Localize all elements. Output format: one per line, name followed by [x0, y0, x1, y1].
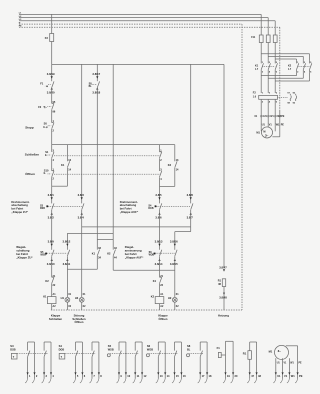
wire heizung drop from rail: [223, 64, 225, 267]
wire N drop: [241, 24, 243, 310]
svg-text:17: 17: [202, 374, 205, 378]
svg-text:5: 5: [276, 93, 278, 95]
svg-text:18: 18: [209, 374, 212, 378]
svg-text:3.8/6: 3.8/6: [155, 216, 162, 220]
svg-text:3.8/48: 3.8/48: [219, 295, 227, 299]
wire lamp H1 to N rail: [67, 302, 71, 310]
svg-text:3: 3: [269, 93, 271, 95]
svg-text:34: 34: [98, 257, 101, 260]
wire L1 to F11: [260, 14, 262, 35]
svg-text:S3: S3: [10, 344, 14, 348]
svg-text:K1: K1: [92, 252, 96, 256]
svg-text:4: 4: [53, 159, 55, 162]
svg-text:13: 13: [68, 159, 71, 162]
wire box bottom edge left: [52, 185, 68, 187]
wire lamp H2 to N rail: [175, 302, 179, 310]
svg-text:3~: 3~: [278, 349, 282, 353]
svg-text:16: 16: [183, 374, 186, 378]
svg-text:DSB: DSB: [40, 208, 45, 210]
wire lamp H3 to N rail: [82, 302, 86, 310]
wire K1 33 out to lamp H1 branch: [67, 256, 97, 269]
svg-text:3.8/3: 3.8/3: [78, 193, 85, 197]
svg-text:3.8/17: 3.8/17: [92, 72, 100, 76]
wire rail drop column to S3 second contact: [81, 64, 83, 203]
wire branch to K2 phase L3: [275, 59, 296, 60]
svg-text:S6: S6: [149, 251, 153, 254]
svg-text:PE: PE: [281, 124, 285, 127]
wire R1 to N rail: [223, 287, 225, 311]
svg-text:6: 6: [310, 71, 312, 73]
svg-text:96: 96: [53, 110, 56, 113]
svg-text:1.7: 1.7: [255, 69, 259, 71]
wire S6 to K1 interlock: [159, 256, 161, 277]
svg-text:DOB: DOB: [148, 208, 153, 210]
connector refs 3.8/8 3.8/7: [187, 193, 194, 220]
svg-text:Stopp: Stopp: [25, 126, 34, 130]
svg-text:X1: X1: [68, 293, 72, 296]
wire F1 to F2 contact: [51, 88, 53, 104]
latch box top edge: [97, 239, 113, 241]
svg-text:U1: U1: [277, 374, 281, 378]
overload relay F2: [253, 91, 278, 103]
svg-text:3.8/18: 3.8/18: [92, 90, 100, 94]
svg-text:S5: S5: [40, 251, 44, 254]
wire K1 NC to coil K2: [160, 284, 165, 297]
svg-text:48: 48: [258, 374, 261, 378]
svg-text:4: 4: [269, 70, 271, 73]
svg-text:3.8/47: 3.8/47: [219, 265, 227, 269]
svg-text:E-⊙: E-⊙: [43, 126, 47, 129]
text Drehmoment ZU: [11, 200, 29, 214]
svg-text:3.8/9: 3.8/9: [48, 239, 55, 243]
text Drehmoment AUF: [120, 200, 139, 214]
svg-text:3.8/15: 3.8/15: [170, 262, 178, 266]
svg-text:33: 33: [98, 247, 101, 250]
svg-text:21: 21: [53, 275, 56, 278]
svg-text:PE: PE: [299, 374, 303, 378]
svg-text:A1: A1: [53, 293, 57, 296]
svg-text:K2: K2: [288, 65, 292, 68]
mech link S10 to S2 contact: [54, 173, 160, 175]
svg-text:PE: PE: [281, 115, 285, 118]
svg-text:F2: F2: [253, 91, 257, 94]
wire K2 output return phase b: [268, 73, 303, 79]
svg-text:S3: S3: [40, 204, 44, 207]
svg-text:4: 4: [269, 101, 271, 104]
wire node line to S2 contacts: [159, 145, 161, 152]
svg-text:K1: K1: [153, 279, 157, 283]
svg-text:20: 20: [235, 374, 238, 378]
limit switch S5 Weg ZU: [40, 250, 54, 257]
connector refs 3.8/3 3.8/4: [78, 193, 85, 220]
wire branch to K2 phase L2: [268, 56, 303, 60]
svg-text:„Klappe AUF“: „Klappe AUF“: [120, 210, 139, 214]
torque switch S4 Klappe AUF: [148, 203, 161, 210]
svg-text:E-: E-: [44, 173, 47, 175]
svg-text:3.8/7: 3.8/7: [187, 216, 194, 220]
svg-text:4: 4: [52, 374, 54, 378]
wire coil K2 to N rail: [160, 304, 165, 310]
contactor K1 main contacts: [255, 60, 278, 73]
svg-text:22: 22: [160, 284, 163, 287]
wire rail drop to S4 second contact: [190, 64, 192, 203]
svg-text:X1: X1: [254, 116, 258, 118]
svg-text:3.8/10: 3.8/10: [47, 262, 55, 266]
wire L2 to F11: [267, 18, 269, 35]
torque switch S4 second contact: [191, 203, 193, 209]
svg-text:BL: BL: [89, 86, 93, 88]
wire K2 output return phase c: [275, 73, 309, 81]
heater device R1: [243, 342, 262, 383]
wire from link line to S5 lamp branch: [66, 233, 68, 249]
svg-text:F1: F1: [217, 346, 221, 350]
svg-text:A1: A1: [160, 293, 164, 296]
svg-text:W1: W1: [291, 374, 295, 378]
wire coil K1 to N rail: [52, 304, 57, 310]
svg-text:6: 6: [276, 102, 278, 104]
aux contact F2 95-96: [293, 92, 297, 104]
wire K1 outputs to F2: [261, 73, 275, 93]
limit switch device S3: [10, 342, 54, 383]
svg-text:R1: R1: [243, 352, 247, 356]
connector refs 3.8/9 3.8/10: [47, 239, 55, 265]
heater resistor R1: [218, 279, 226, 287]
link line to lamp branch left: [67, 232, 113, 234]
svg-text:BL: BL: [187, 349, 191, 352]
label Stopp: [25, 126, 34, 130]
svg-text:43: 43: [114, 247, 117, 250]
svg-text:E-: E-: [45, 155, 48, 157]
svg-text:K2: K2: [107, 252, 111, 256]
terminal strip X1: [254, 115, 284, 118]
svg-text:X1: X1: [176, 293, 180, 296]
self-hold branch K2 13-14: [168, 145, 179, 187]
text Riegelansteuerung AUF: [125, 245, 144, 259]
wire rail to F1 contact: [51, 64, 53, 81]
svg-text:K2: K2: [151, 295, 155, 299]
lamp H2: [168, 296, 177, 302]
svg-text:S0: S0: [44, 122, 48, 126]
text Heizung: [218, 314, 229, 318]
svg-text:A2: A2: [160, 305, 164, 308]
connector refs 3.8/17 3.8/18: [92, 72, 100, 94]
svg-text:F1: F1: [40, 81, 44, 85]
svg-text:X2: X2: [83, 305, 87, 308]
svg-text:3.8/11: 3.8/11: [63, 262, 71, 266]
connector refs 3.8/12 3.8/11: [63, 239, 71, 265]
release switch S8 BL: [89, 81, 100, 88]
svg-text:2: 2: [297, 71, 299, 73]
svg-text:9: 9: [120, 374, 122, 378]
svg-text:R1: R1: [218, 279, 222, 282]
svg-text:W1: W1: [290, 362, 294, 364]
fuse F3: [45, 34, 54, 42]
text Wegabschaltung ZU: [16, 245, 33, 259]
svg-text:V1: V1: [284, 362, 288, 364]
limit switch S6 second contact: [175, 250, 177, 256]
svg-text:◌⊖: ◌⊖: [45, 85, 48, 88]
svg-text:U1: U1: [277, 362, 281, 364]
svg-text:12: 12: [144, 374, 147, 378]
wire between S2 contacts: [159, 158, 161, 171]
connector refs 3.8/19 3.8/20: [47, 72, 55, 94]
svg-text:3: 3: [46, 374, 48, 378]
net L3 bus: [19, 19, 275, 21]
latch contact K2 43-44: [107, 247, 117, 259]
svg-text:Öffnen: Öffnen: [74, 319, 83, 324]
svg-text:98: 98: [287, 102, 290, 104]
svg-text:H3: H3: [75, 296, 79, 300]
svg-text:K1: K1: [43, 295, 47, 299]
wire K2 43 out to Oeffnen branch: [113, 256, 175, 270]
svg-text:2: 2: [36, 374, 38, 378]
limit switch S5 second contact: [67, 250, 69, 256]
mech link S1 to S2 contact: [54, 155, 160, 157]
svg-text:6: 6: [84, 374, 86, 378]
svg-text:5: 5: [77, 374, 79, 378]
svg-text:S8: S8: [187, 344, 191, 348]
wire S4 to S6: [159, 210, 161, 250]
svg-text:PE: PE: [299, 362, 303, 364]
svg-text:DSB: DSB: [10, 349, 15, 352]
net N bus: [19, 22, 242, 24]
svg-text:19: 19: [227, 374, 230, 378]
svg-text:1.7: 1.7: [288, 69, 292, 71]
svg-text:S4: S4: [148, 204, 152, 207]
interlock contact K1 21-22 NC: [153, 275, 164, 287]
svg-text:H2: H2: [168, 296, 172, 300]
label Schliessen: [25, 152, 39, 156]
svg-text:V1: V1: [269, 124, 273, 127]
svg-text:1.6: 1.6: [253, 97, 257, 99]
button contact S2 NO 3-4: [160, 168, 163, 180]
wire PE drop to motor: [272, 27, 279, 137]
svg-text:„Klappe ZU“: „Klappe ZU“: [11, 210, 28, 214]
svg-text:WSB: WSB: [40, 254, 46, 256]
wire branch to K2 phase L1: [261, 54, 309, 60]
svg-text:F3: F3: [45, 36, 49, 40]
svg-text:F2: F2: [38, 105, 42, 109]
node line after S0: [52, 144, 175, 146]
svg-text:H1: H1: [61, 296, 65, 300]
contact F2 overload NC 95-96: [38, 101, 56, 113]
wire S10 to box bottom: [51, 177, 53, 186]
svg-text:95: 95: [53, 101, 56, 104]
limit switch device S5: [107, 342, 147, 383]
svg-text:15: 15: [176, 374, 179, 378]
push button S10 Oeffnen NC 1-2: [44, 168, 55, 180]
svg-text:3.8/12: 3.8/12: [63, 239, 71, 243]
svg-text:X2: X2: [176, 305, 180, 308]
svg-text:S10: S10: [44, 168, 49, 172]
limit switch device S6: [146, 342, 186, 383]
svg-text:WOB: WOB: [147, 349, 153, 352]
mech link F2 to aux contacts: [278, 96, 289, 98]
connector refs 3.8/16 3.8/15: [170, 239, 178, 265]
svg-text:1V1: 1V1: [269, 115, 274, 118]
svg-text:N: N: [19, 22, 21, 24]
limit switch device S4: [59, 342, 103, 383]
svg-text:3.8/16: 3.8/16: [170, 239, 178, 243]
mech link S5 pair: [47, 252, 67, 254]
wire L1 tap to F3: [51, 14, 53, 33]
svg-text:2: 2: [53, 178, 55, 181]
svg-text:6: 6: [276, 71, 278, 73]
svg-text:4: 4: [304, 70, 306, 73]
limit switch S6 Weg AUF: [149, 250, 162, 257]
svg-text:14: 14: [68, 168, 71, 171]
svg-text:3.8/19: 3.8/19: [47, 72, 55, 76]
wire F2 to terminals X1: [261, 99, 275, 131]
svg-text:47: 47: [251, 374, 254, 378]
svg-text:S4: S4: [59, 344, 63, 348]
svg-text:2: 2: [262, 71, 264, 73]
lamp H3 Stoerung: [75, 296, 84, 302]
svg-text:X1: X1: [83, 293, 87, 296]
node control rail: [52, 63, 224, 65]
contactor K2 main contacts: [288, 60, 312, 73]
release switch device S8: [187, 342, 212, 383]
svg-text:A2: A2: [53, 305, 57, 308]
svg-text:21: 21: [160, 275, 163, 278]
text Klappe Schliessen: [49, 314, 63, 321]
connector refs 3.8/5 3.8/6: [155, 193, 162, 220]
wire S5 to K2 interlock: [51, 256, 53, 277]
wire F3 to control rail: [51, 42, 53, 65]
svg-text:3.8/1: 3.8/1: [48, 193, 55, 197]
torque switch S3 second contact: [82, 203, 84, 209]
motor M1: [256, 127, 272, 138]
mech link S6 pair: [156, 252, 175, 254]
label Oeffnen: [25, 171, 35, 176]
svg-text:1: 1: [29, 374, 31, 378]
svg-text:8: 8: [100, 374, 102, 378]
svg-text:Schließen: Schließen: [49, 317, 63, 321]
net L2 bus: [19, 16, 268, 18]
svg-text:14: 14: [167, 374, 170, 378]
svg-text:K1: K1: [61, 163, 65, 167]
svg-text:W1: W1: [276, 124, 280, 127]
contact F1 thermistor: [40, 81, 54, 88]
wire K2 NC to coil K1: [52, 284, 57, 297]
aux contact F2 97-98: [287, 92, 291, 104]
svg-text:Öffnen: Öffnen: [25, 171, 35, 176]
text Klappe Oeffnen: [158, 314, 168, 321]
svg-text:3.8/14: 3.8/14: [155, 262, 163, 266]
wire box bottom edge right: [160, 185, 175, 187]
svg-text:„Klappe AUF“: „Klappe AUF“: [125, 255, 144, 259]
svg-text:F11: F11: [251, 36, 256, 39]
fuse F11 three pole: [251, 35, 277, 43]
interlock contact K2 21-22 NC: [45, 275, 55, 287]
svg-text:44: 44: [114, 257, 117, 260]
wire F11 to K1 contacts: [261, 43, 275, 61]
svg-text:K2: K2: [168, 163, 172, 167]
thermistor device F1: [217, 341, 238, 383]
svg-text:2: 2: [53, 130, 55, 133]
mech link S4 pair: [157, 206, 191, 208]
svg-text:U1: U1: [262, 124, 266, 127]
push button S1 Schliessen NO 3-4: [45, 145, 55, 162]
svg-text:K1: K1: [255, 65, 259, 68]
svg-text:T▷: T▷: [43, 106, 46, 109]
svg-text:1: 1: [262, 93, 264, 95]
wire S2 to torque switch S4: [159, 186, 161, 203]
net N bottom rail: [51, 309, 242, 311]
svg-text:4: 4: [160, 178, 162, 181]
svg-text:Schließen: Schließen: [25, 152, 39, 156]
svg-text:DOB: DOB: [59, 349, 65, 352]
svg-text:3.8/8: 3.8/8: [187, 193, 194, 197]
wire S3 to S5: [51, 210, 53, 250]
wire rail drop to latch contact K2: [112, 64, 114, 249]
wire S2 to box bottom right: [159, 177, 161, 186]
connector refs 3.8/47 3.8/48: [219, 265, 227, 299]
net L1 bus: [19, 13, 261, 15]
svg-text:S5: S5: [108, 344, 112, 348]
svg-text:1U1: 1U1: [262, 115, 267, 118]
wire S0 to node line: [51, 129, 53, 145]
svg-text:2: 2: [262, 102, 264, 104]
svg-text:V1: V1: [284, 374, 288, 378]
wire S3 second to junction: [82, 210, 86, 298]
wire L3 to F11: [274, 21, 276, 35]
mech link S3 pair: [48, 206, 81, 208]
coil K1: [43, 295, 56, 304]
wire S10 to torque switch S3: [51, 186, 53, 203]
net PE bus: [19, 26, 280, 28]
wire S8 to latch contact K1 33-34: [96, 88, 98, 250]
text Stoerung: [72, 314, 86, 325]
svg-text:14: 14: [176, 168, 179, 171]
svg-text:11: 11: [137, 374, 140, 378]
svg-text:4R: 4R: [218, 283, 221, 286]
svg-text:3.8/20: 3.8/20: [47, 90, 55, 94]
svg-text:WOB: WOB: [149, 254, 155, 256]
svg-text:2: 2: [160, 159, 162, 162]
torque switch S3 Klappe ZU: [40, 203, 54, 210]
svg-text:3.8/5: 3.8/5: [155, 193, 162, 197]
svg-text:S6: S6: [147, 344, 151, 348]
wire F2 to S0: [51, 110, 53, 123]
svg-text:3~: 3~: [265, 133, 269, 137]
svg-text:X2: X2: [68, 305, 72, 308]
svg-text:„Klappe ZU“: „Klappe ZU“: [16, 255, 33, 259]
svg-text:3.8/2: 3.8/2: [48, 216, 55, 220]
wire S4 second to cross junction: [190, 210, 192, 227]
svg-text:S1: S1: [45, 150, 49, 154]
connector refs 3.8/1 3.8/2: [48, 193, 55, 220]
svg-text:13: 13: [176, 159, 179, 162]
wire cross jog to lamp H2 branch: [175, 227, 191, 250]
wire rail drop to S8 contact: [96, 64, 98, 81]
motor device M1: [269, 345, 303, 383]
wire K2 output return phase a: [261, 73, 296, 76]
svg-text:Öffnen: Öffnen: [158, 316, 167, 321]
svg-text:96: 96: [293, 102, 296, 104]
wire S6 second to lamp H2: [175, 256, 179, 297]
coil K2: [151, 295, 164, 304]
connector refs 3.8/13 3.8/14: [155, 239, 163, 265]
button contact S2 NC 1-2: [160, 149, 163, 161]
latch contact K1 33-34: [92, 247, 102, 259]
svg-text:10: 10: [127, 374, 130, 378]
svg-text:3.8/4: 3.8/4: [78, 216, 85, 220]
wire S5 second to lamp H1: [67, 256, 71, 297]
wire S1 to S10: [51, 158, 53, 171]
lamp H1: [61, 296, 70, 302]
svg-text:7: 7: [93, 374, 95, 378]
